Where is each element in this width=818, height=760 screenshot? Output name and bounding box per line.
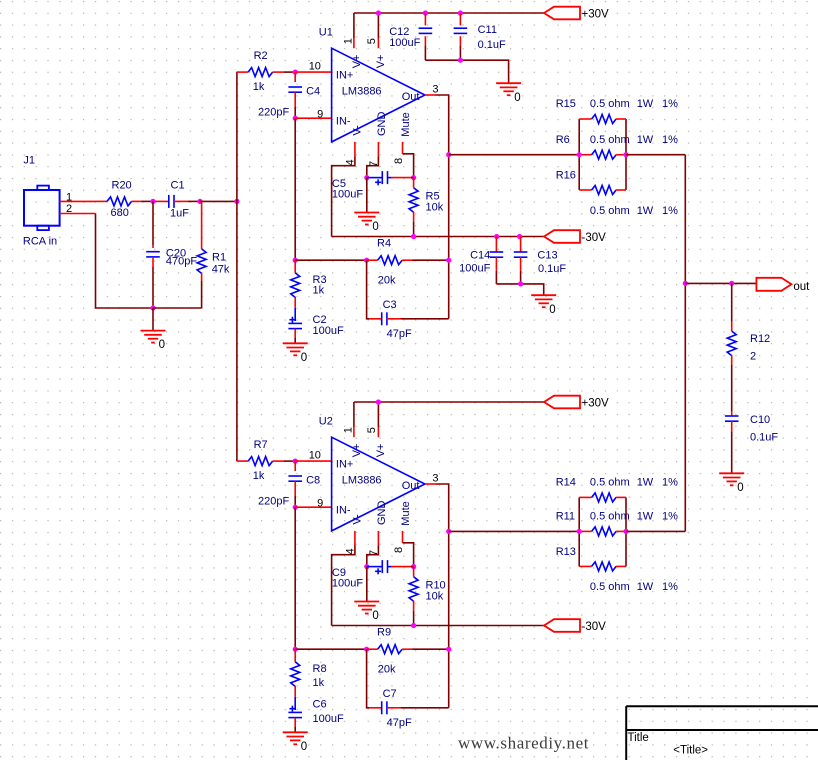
wire to out port xyxy=(685,282,756,284)
connector J1 (RCA in) xyxy=(23,154,60,247)
pin 9 wire IN- xyxy=(295,497,331,509)
svg-text:1uF: 1uF xyxy=(170,207,189,219)
svg-text:0.1uF: 0.1uF xyxy=(478,39,506,51)
wire IN- to feedback row xyxy=(294,507,296,649)
svg-text:Mute: Mute xyxy=(400,501,412,525)
pin 10 wire IN+ xyxy=(295,450,331,462)
svg-text:100uF: 100uF xyxy=(332,578,363,590)
svg-text:3: 3 xyxy=(432,83,438,95)
svg-text:1: 1 xyxy=(66,191,72,203)
pin 1 of J1 xyxy=(60,191,96,203)
svg-text:1W: 1W xyxy=(637,581,654,593)
svg-text:R16: R16 xyxy=(556,170,576,182)
svg-text:Out: Out xyxy=(402,480,420,492)
wire IN- to feedback row xyxy=(294,118,296,260)
capacitor C5 100uF polarized xyxy=(332,171,414,200)
pin 9 wire IN- xyxy=(295,108,331,120)
svg-text:3: 3 xyxy=(432,472,438,484)
junction pin5 on rail xyxy=(376,399,381,404)
pin 8 Mute wire xyxy=(393,142,414,178)
junction C12 on rail xyxy=(423,10,428,15)
ground xyxy=(731,461,733,473)
resistor R10 10k xyxy=(409,567,446,626)
power port -30V xyxy=(544,619,580,632)
svg-text:47pF: 47pF xyxy=(387,717,412,729)
svg-text:R6: R6 xyxy=(556,134,570,146)
resistor R6 0.5 ohm xyxy=(556,134,678,159)
svg-text:<Title>: <Title> xyxy=(673,745,708,757)
svg-text:1: 1 xyxy=(343,427,355,433)
svg-text:LM3886: LM3886 xyxy=(342,475,382,487)
+30V rail wire xyxy=(354,401,544,403)
svg-text:C4: C4 xyxy=(306,85,320,97)
resistor R9 20k xyxy=(367,627,449,676)
svg-text:47k: 47k xyxy=(212,263,230,275)
svg-text:0: 0 xyxy=(159,339,165,351)
svg-text:C6: C6 xyxy=(313,698,327,710)
svg-text:IN+: IN+ xyxy=(336,69,353,81)
wire decoupling caps to ground xyxy=(425,60,508,71)
svg-text:1W: 1W xyxy=(637,511,654,523)
capacitor C4 220pF xyxy=(258,72,320,118)
svg-text:47pF: 47pF xyxy=(387,328,412,340)
svg-text:1%: 1% xyxy=(662,134,678,146)
svg-text:C14: C14 xyxy=(470,250,490,262)
svg-text:470pF: 470pF xyxy=(166,256,197,268)
svg-text:100uF: 100uF xyxy=(313,325,344,337)
svg-text:Title: Title xyxy=(628,732,649,744)
svg-text:R1: R1 xyxy=(212,252,226,264)
svg-text:V+: V+ xyxy=(351,55,363,69)
svg-text:4: 4 xyxy=(345,548,357,554)
svg-text:5: 5 xyxy=(366,38,378,44)
wire feedback vertical xyxy=(448,155,450,319)
svg-text:1W: 1W xyxy=(637,98,654,110)
junction input bus xyxy=(234,199,239,204)
svg-text:RCA in: RCA in xyxy=(23,236,57,248)
svg-text:+30V: +30V xyxy=(582,9,610,21)
junction C11 bottom xyxy=(458,58,463,63)
svg-text:8: 8 xyxy=(393,158,405,164)
junction IN- node xyxy=(293,505,298,510)
svg-text:20k: 20k xyxy=(378,274,396,286)
svg-text:220pF: 220pF xyxy=(258,496,289,508)
pin 5 V+ wire xyxy=(366,13,378,48)
junction R5 bottom xyxy=(411,623,416,628)
ground xyxy=(508,71,510,83)
svg-text:2: 2 xyxy=(66,203,72,215)
resistor R11 0.5 ohm xyxy=(556,511,678,536)
pin 7 GND wire xyxy=(367,142,380,178)
junction C14 top xyxy=(494,234,499,239)
junction C5 left xyxy=(364,564,369,569)
capacitor C9 100uF polarized xyxy=(332,560,414,589)
-30V rail wire xyxy=(332,625,544,627)
wire R20 to node A xyxy=(142,200,154,202)
resistor R8 1k xyxy=(291,649,327,697)
svg-text:0: 0 xyxy=(301,352,307,364)
svg-text:IN-: IN- xyxy=(336,116,351,128)
svg-text:U1: U1 xyxy=(319,27,333,39)
resistor R14 0.5 ohm xyxy=(556,476,678,502)
wire feedback row left xyxy=(295,259,366,261)
svg-text:1%: 1% xyxy=(662,205,678,217)
resistor R1 47k xyxy=(153,201,230,308)
svg-text:R15: R15 xyxy=(556,98,576,110)
ground xyxy=(294,338,296,343)
svg-text:100uF: 100uF xyxy=(389,37,420,49)
junction C13 bottom xyxy=(518,281,523,286)
svg-text:R20: R20 xyxy=(112,179,132,191)
svg-text:R9: R9 xyxy=(377,627,391,639)
power port +30V xyxy=(544,396,580,409)
capacitor C6 100uF polarized xyxy=(288,697,344,727)
svg-text:LM3886: LM3886 xyxy=(342,86,382,98)
op-amp U1 LM3886 xyxy=(319,27,425,142)
junction node B xyxy=(197,199,202,204)
wire out to resistor bank xyxy=(449,154,580,156)
svg-text:0.5 ohm: 0.5 ohm xyxy=(590,476,630,488)
capacitor C11 0.1uF xyxy=(454,13,506,60)
svg-text:0: 0 xyxy=(372,610,378,622)
junction output tap xyxy=(683,281,688,286)
svg-text:IN-: IN- xyxy=(336,505,351,517)
svg-text:IN+: IN+ xyxy=(336,458,353,470)
svg-text:R7: R7 xyxy=(254,439,268,451)
svg-text:0.5 ohm: 0.5 ohm xyxy=(590,511,630,523)
power port +30V xyxy=(544,7,580,20)
capacitor C2 100uF polarized xyxy=(288,308,344,338)
pin 3 Out wire xyxy=(425,472,439,484)
title block xyxy=(626,706,818,760)
junction feedback left xyxy=(293,647,298,652)
svg-text:V+: V+ xyxy=(375,55,387,69)
svg-text:10: 10 xyxy=(309,61,321,73)
ground xyxy=(543,288,545,295)
resistor R5 10k xyxy=(409,178,444,237)
pin 2 of J1 xyxy=(60,203,96,215)
junction node A xyxy=(150,199,155,204)
wire out to feedback node xyxy=(436,484,449,531)
+30V rail wire xyxy=(354,12,544,14)
resistor R13 0.5 ohm xyxy=(556,546,678,593)
svg-text:1%: 1% xyxy=(662,98,678,110)
svg-text:100uF: 100uF xyxy=(313,713,344,725)
svg-text:1%: 1% xyxy=(662,581,678,593)
junction C5 right xyxy=(411,564,416,569)
svg-text:V-: V- xyxy=(351,125,363,136)
svg-text:1k: 1k xyxy=(253,81,265,93)
resistor R7 1k xyxy=(237,439,295,482)
junction R4 left xyxy=(364,647,369,652)
svg-text:1%: 1% xyxy=(662,476,678,488)
wire from J1 pin2 to ground node xyxy=(96,214,154,309)
ground xyxy=(152,308,154,331)
svg-text:1k: 1k xyxy=(313,285,325,297)
pin 5 V+ wire xyxy=(366,402,378,437)
svg-text:V-: V- xyxy=(351,514,363,525)
pin 1 V+ wire xyxy=(343,402,355,437)
junction R5 bottom xyxy=(411,234,416,239)
junction out node xyxy=(446,152,451,157)
svg-text:10: 10 xyxy=(309,450,321,462)
svg-text:C11: C11 xyxy=(478,24,497,36)
svg-text:0: 0 xyxy=(301,741,307,753)
svg-text:8: 8 xyxy=(393,547,405,553)
svg-text:10k: 10k xyxy=(426,202,444,214)
junction IN+ node xyxy=(293,459,298,464)
svg-text:0.5 ohm: 0.5 ohm xyxy=(590,205,630,217)
svg-text:10k: 10k xyxy=(426,591,444,603)
svg-text:R12: R12 xyxy=(750,333,770,345)
junction feedback left xyxy=(293,258,298,263)
svg-text:R4: R4 xyxy=(377,238,391,250)
capacitor C1 1uF xyxy=(155,179,200,219)
capacitor C10 0.1uF xyxy=(725,411,779,461)
svg-text:1W: 1W xyxy=(637,205,654,217)
pin 3 Out wire xyxy=(425,83,439,95)
junction R12 tap xyxy=(729,281,734,286)
svg-text:1: 1 xyxy=(343,38,355,44)
svg-text:0.1uF: 0.1uF xyxy=(538,263,566,275)
capacitor C8 220pF xyxy=(258,461,320,507)
ground xyxy=(366,567,368,602)
svg-text:680: 680 xyxy=(111,207,129,219)
svg-text:C8: C8 xyxy=(306,474,320,486)
-30V rail wire xyxy=(332,236,544,238)
svg-text:C10: C10 xyxy=(750,414,770,426)
svg-text:0.1uF: 0.1uF xyxy=(750,432,778,444)
svg-text:0.5 ohm: 0.5 ohm xyxy=(590,581,630,593)
svg-text:R8: R8 xyxy=(313,663,327,675)
resistor bank right rail wire xyxy=(625,497,627,566)
pin 10 wire IN+ xyxy=(295,61,331,73)
wire out to resistor bank xyxy=(449,530,580,532)
resistor R3 1k xyxy=(291,260,327,308)
junction R4 right xyxy=(446,258,451,263)
svg-text:0.5 ohm: 0.5 ohm xyxy=(590,98,630,110)
junction ground node xyxy=(150,305,155,310)
junction C5 left xyxy=(364,175,369,180)
port out xyxy=(756,278,791,291)
pin 1 V+ wire xyxy=(343,13,355,48)
svg-text:R14: R14 xyxy=(556,476,576,488)
capacitor C7 47pF xyxy=(367,649,449,729)
capacitor C3 47pF xyxy=(367,260,449,340)
svg-text:7: 7 xyxy=(368,161,380,167)
power port -30V xyxy=(544,230,580,243)
svg-text:C13: C13 xyxy=(537,250,557,262)
junction C11 on rail xyxy=(458,10,463,15)
junction C5 right xyxy=(411,175,416,180)
capacitor C13 0.1uF xyxy=(514,237,567,284)
svg-text:C3: C3 xyxy=(383,299,397,311)
wire bank to output bus xyxy=(626,530,685,532)
svg-text:4: 4 xyxy=(345,159,357,165)
svg-text:100uF: 100uF xyxy=(332,189,363,201)
wire out to feedback node xyxy=(436,95,449,155)
ground xyxy=(366,178,368,213)
junction C13 top xyxy=(517,234,522,239)
junction out node xyxy=(446,529,451,534)
junction R4 right xyxy=(446,647,451,652)
resistor R2 1k xyxy=(237,50,295,93)
svg-text:U2: U2 xyxy=(319,416,333,428)
svg-text:R2: R2 xyxy=(254,50,268,62)
svg-text:GND: GND xyxy=(376,501,388,526)
resistor R20 680 xyxy=(96,179,142,219)
op-amp U2 LM3886 xyxy=(319,416,425,531)
svg-text:1k: 1k xyxy=(313,677,325,689)
svg-text:1W: 1W xyxy=(637,134,654,146)
svg-text:R11: R11 xyxy=(556,511,575,523)
capacitor C20 470pF xyxy=(146,201,197,308)
input bus wire xyxy=(236,72,238,462)
svg-text:-30V: -30V xyxy=(582,621,607,633)
resistor R12 2 xyxy=(727,283,770,411)
svg-text:1W: 1W xyxy=(637,476,654,488)
svg-text:9: 9 xyxy=(317,497,323,509)
capacitor C12 100uF xyxy=(389,13,432,60)
capacitor C14 100uF xyxy=(459,237,503,284)
junction pin5 on rail xyxy=(376,10,381,15)
junction bank left xyxy=(577,152,582,157)
wire feedback vertical xyxy=(448,531,450,707)
svg-text:0.5 ohm: 0.5 ohm xyxy=(590,134,630,146)
wire bank to output bus xyxy=(626,154,685,156)
ground xyxy=(294,727,296,732)
svg-text:www.sharediy.net: www.sharediy.net xyxy=(458,734,589,753)
pin 4 V- wire xyxy=(332,142,357,237)
svg-text:GND: GND xyxy=(376,112,388,137)
svg-text:out: out xyxy=(793,281,810,293)
svg-text:V+: V+ xyxy=(351,444,363,458)
resistor bank left rail wire xyxy=(578,497,580,566)
output bus wire xyxy=(684,155,686,532)
svg-text:0: 0 xyxy=(549,304,555,316)
junction IN+ node xyxy=(293,70,298,75)
junction bank right xyxy=(623,152,628,157)
svg-text:100uF: 100uF xyxy=(459,262,490,274)
svg-text:20k: 20k xyxy=(378,663,396,675)
svg-text:0: 0 xyxy=(737,482,743,494)
junction R4 left xyxy=(364,258,369,263)
junction IN- node xyxy=(293,116,298,121)
resistor R4 20k xyxy=(367,238,449,287)
svg-text:+30V: +30V xyxy=(582,398,610,410)
svg-text:Out: Out xyxy=(402,91,420,103)
svg-text:5: 5 xyxy=(366,427,378,433)
svg-text:1k: 1k xyxy=(253,470,265,482)
junction bank left xyxy=(577,529,582,534)
svg-text:Mute: Mute xyxy=(400,112,412,136)
svg-text:220pF: 220pF xyxy=(258,107,289,119)
svg-text:C7: C7 xyxy=(383,688,397,700)
pin 8 Mute wire xyxy=(393,531,414,567)
wire node B to input bus xyxy=(200,200,237,202)
svg-text:9: 9 xyxy=(317,108,323,120)
resistor bank right rail wire xyxy=(625,119,627,190)
wire feedback row left xyxy=(295,648,366,650)
resistor bank left rail wire xyxy=(578,119,580,190)
svg-text:0: 0 xyxy=(514,92,520,104)
svg-text:R13: R13 xyxy=(556,546,576,558)
pin 7 GND wire xyxy=(367,531,380,567)
svg-text:7: 7 xyxy=(368,550,380,556)
svg-text:-30V: -30V xyxy=(582,232,607,244)
resistor R16 0.5 ohm xyxy=(556,170,678,217)
svg-text:J1: J1 xyxy=(23,154,35,166)
resistor R15 0.5 ohm xyxy=(556,98,678,124)
pin 4 V- wire xyxy=(332,531,357,626)
svg-text:V+: V+ xyxy=(375,444,387,458)
svg-text:1%: 1% xyxy=(662,511,678,523)
wire filter caps to ground xyxy=(496,284,543,288)
svg-text:0: 0 xyxy=(372,221,378,233)
junction bank right xyxy=(623,529,628,534)
svg-text:2: 2 xyxy=(750,350,756,362)
svg-text:C1: C1 xyxy=(171,179,185,191)
